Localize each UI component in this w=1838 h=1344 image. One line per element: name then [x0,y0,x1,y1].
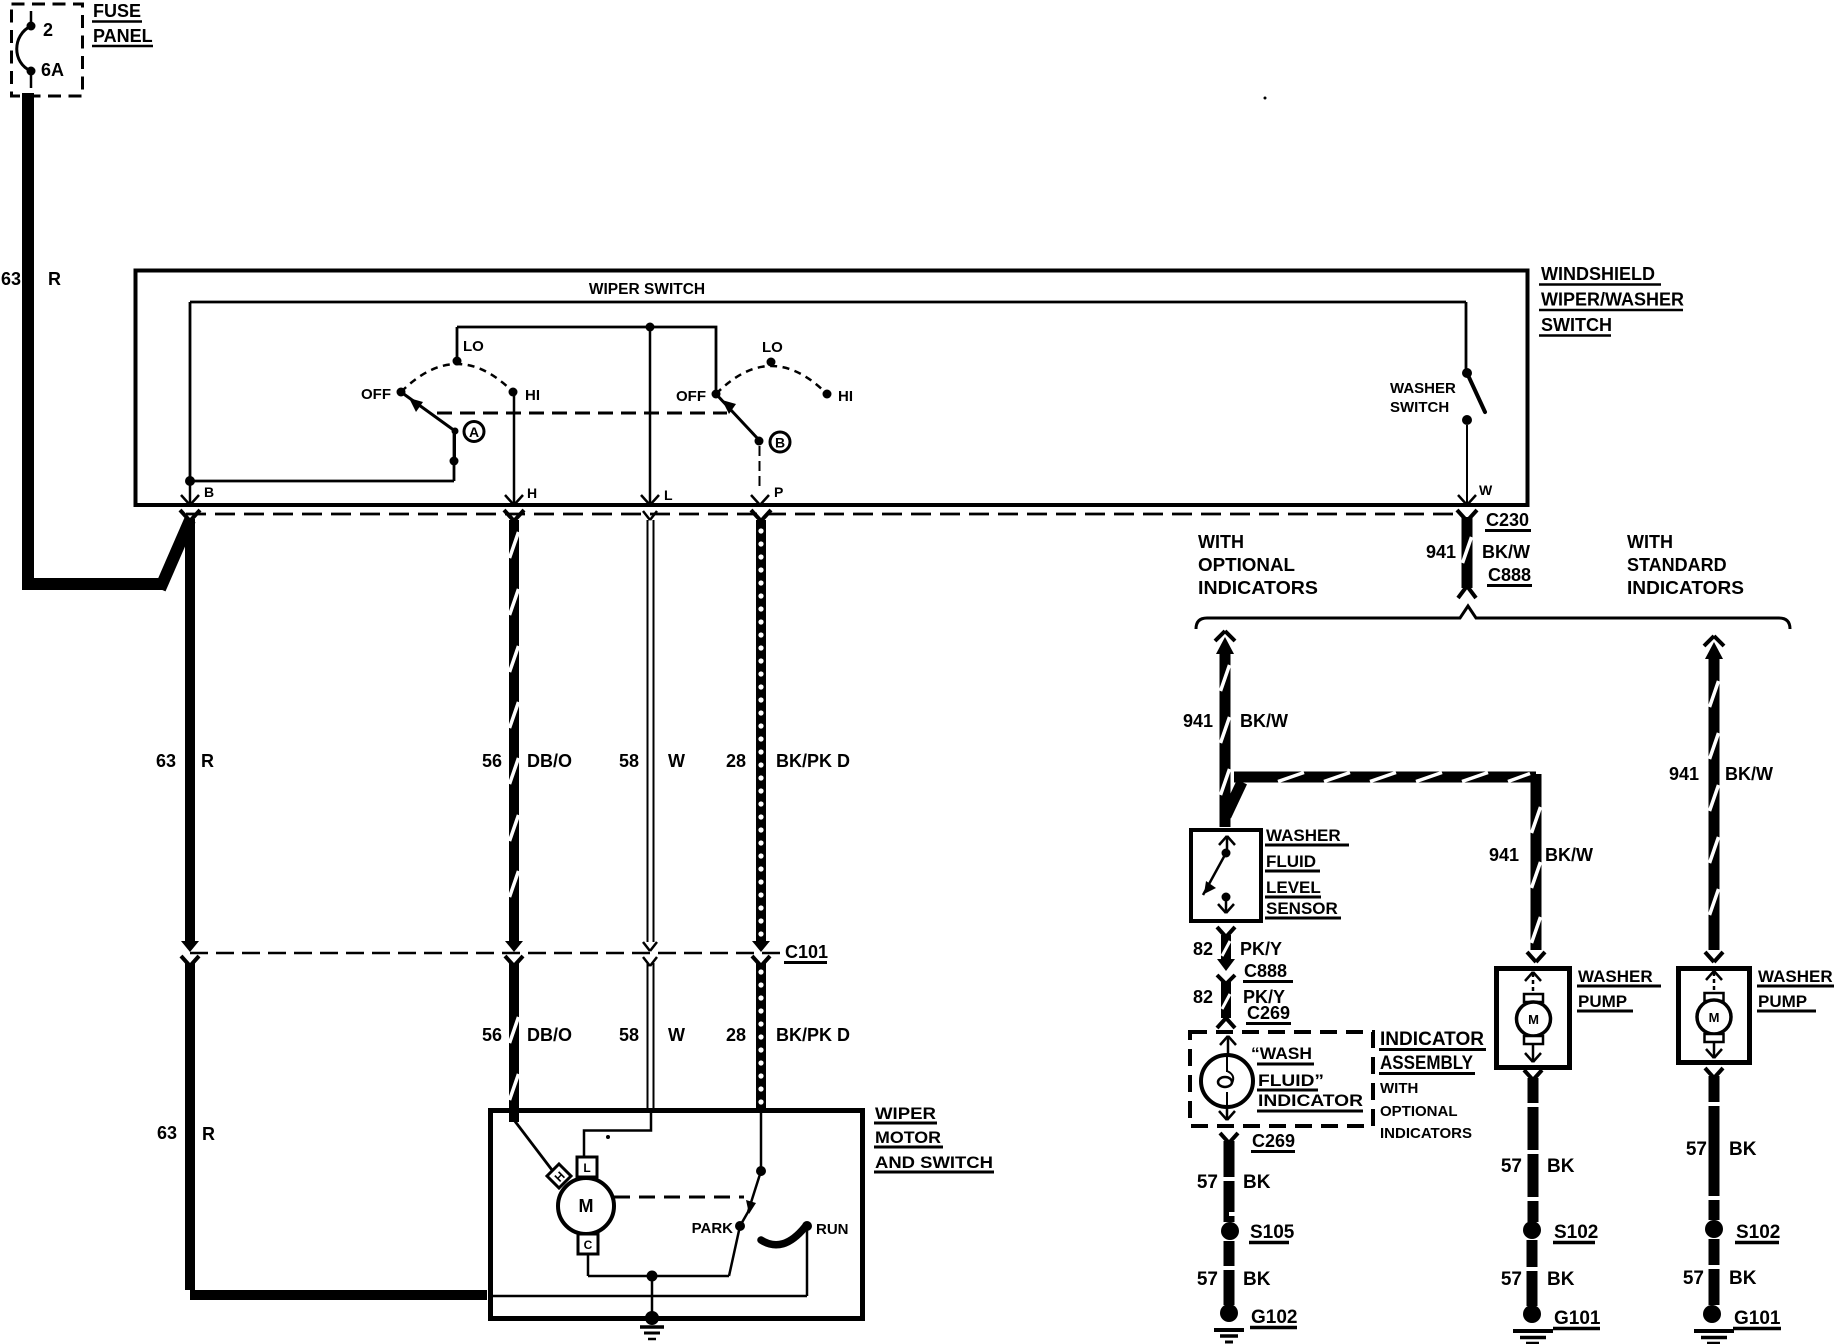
wire LO-A up to link bus [456,327,459,361]
mechanical link dashed line A-B [437,412,727,415]
washer fluid level sensor box [1191,830,1261,921]
svg-text:63: 63 [157,1123,177,1143]
svg-text:OFF: OFF [676,388,706,405]
terminal H arrow [505,495,523,505]
wire HI-A down to H terminal [513,392,516,503]
windshield wiper/washer switch outline box [136,271,1528,506]
svg-text:BK: BK [1547,1269,1575,1290]
svg-text:2: 2 [43,20,53,40]
svg-text:C101: C101 [785,942,828,962]
wash fluid indicator label [1251,1044,1363,1111]
stray speck [606,1135,610,1139]
park switch upper contact [756,1166,766,1176]
with standard indicators label [1627,532,1744,598]
splice S102 label (pump 1) [1553,1222,1598,1243]
svg-text:C269: C269 [1247,1003,1290,1023]
switch B OFF contact [712,390,721,399]
switch A OFF contact [397,388,406,397]
svg-text:S102: S102 [1554,1222,1598,1243]
svg-text:BK/W: BK/W [1725,764,1773,784]
svg-text:INDICATORS: INDICATORS [1380,1125,1472,1142]
wire 941 BK/W standard-indicators branch (right) [1704,636,1724,962]
switch B LO contact [767,358,776,367]
svg-text:LEVEL: LEVEL [1266,878,1321,897]
switch A blade [401,392,459,435]
svg-text:W: W [668,1025,685,1045]
wire 941 branch to washer pump 1 [1226,773,1545,963]
svg-text:FUSE: FUSE [93,1,141,21]
svg-text:INDICATOR: INDICATOR [1258,1091,1363,1110]
wire 58 W vertical run (L to C101) [648,520,654,942]
svg-text:B: B [204,484,214,500]
washer switch label [1390,380,1456,416]
fuse panel box [12,4,83,96]
svg-text:941: 941 [1426,542,1456,562]
wire 57 BK pump 1 ground run [1524,1070,1542,1222]
indicator bulb ground arrow [1219,1106,1235,1120]
svg-text:WIPER/WASHER: WIPER/WASHER [1541,290,1684,310]
svg-text:PUMP: PUMP [1578,992,1627,1011]
svg-text:6A: 6A [41,60,64,80]
svg-text:INDICATOR: INDICATOR [1380,1029,1484,1050]
wire 58 W lower run [648,963,654,1110]
svg-text:28: 28 [726,751,746,771]
svg-text:PARK: PARK [692,1220,734,1237]
svg-text:B: B [775,435,785,451]
brush terminal H (diamond) [547,1164,571,1188]
C101 pins on wire 63 [181,941,199,966]
svg-text:WIPER: WIPER [875,1104,936,1123]
switch A LO contact [453,357,462,366]
svg-text:82: 82 [1193,987,1213,1007]
svg-text:OPTIONAL: OPTIONAL [1380,1103,1458,1120]
svg-text:INDICATORS: INDICATORS [1198,578,1318,598]
washer pump 2 feed arrow [1706,971,1722,993]
stray speck [22,248,26,252]
washer pump 1 feed arrow [1525,972,1541,994]
switch B HI contact [823,390,832,399]
terminal B arrow [181,481,199,505]
wire 57 BK to G102 [1222,1241,1236,1305]
svg-text:BK: BK [1243,1172,1271,1193]
switch A pivot link [454,431,456,461]
ground G101 stud (pump 1) [1523,1305,1541,1323]
washer fluid level sensor label [1265,826,1349,918]
wire C to ground junction [588,1254,729,1276]
wire RUN to battery feed [490,1226,807,1296]
svg-text:R: R [202,1124,215,1144]
wire 82 PK/Y lower [1217,975,1235,1028]
connector C888 label (top) [1487,565,1532,586]
PARK contact [735,1221,745,1231]
node: ground junction [647,1271,658,1282]
indicator assembly label [1379,1029,1486,1142]
sensor upper contact [1222,849,1231,858]
C101 pins on wire 58 [643,942,657,966]
brush terminal C (square) [578,1234,598,1254]
wire 28 BK/PK D vertical run (P to C101) [758,520,763,941]
svg-text:941: 941 [1489,845,1519,865]
svg-text:RUN: RUN [816,1221,849,1238]
svg-text:C230: C230 [1486,510,1529,530]
svg-text:C: C [584,1238,593,1252]
node: ground stud on box edge [645,1311,659,1325]
svg-text:BK: BK [1729,1139,1757,1160]
svg-text:R: R [48,269,61,289]
svg-text:HI: HI [525,387,540,404]
splice S102 (pump 1) [1523,1221,1541,1239]
brush terminal L (square) [577,1157,597,1177]
connector C101 dashed line [190,952,783,955]
svg-text:57: 57 [1686,1139,1707,1160]
svg-text:BK: BK [1243,1269,1271,1290]
splice S105 [1221,1222,1239,1240]
circled B label [770,432,790,452]
svg-text:BK/PK D: BK/PK D [776,751,850,771]
C101 pins on wire 28 [752,941,770,966]
svg-text:WITH: WITH [1627,532,1673,552]
wire 56 DB/O vertical run (H to C101) [510,520,519,941]
svg-text:28: 28 [726,1025,746,1045]
ground G101 label (pump 2) [1733,1308,1781,1329]
svg-text:OFF: OFF [361,386,391,403]
splice S105 label [1249,1222,1295,1243]
splice S102 (pump 2) [1705,1220,1723,1238]
svg-text:WASHER: WASHER [1390,380,1456,397]
washer switch upper contact [1462,368,1472,378]
wire 57 BK pump 2 ground run [1705,1068,1723,1220]
svg-text:L: L [583,1161,590,1175]
svg-text:PK/Y: PK/Y [1240,939,1282,959]
svg-text:WASHER: WASHER [1578,967,1653,986]
C101 pins on wire 56 [505,941,523,966]
svg-text:WITH: WITH [1380,1080,1418,1097]
splice S102 label (pump 2) [1735,1222,1780,1243]
connector C230 label [1485,510,1531,531]
ground G102 label [1250,1307,1297,1328]
svg-text:ASSEMBLY: ASSEMBLY [1380,1053,1473,1074]
sensor lower contact [1222,893,1231,902]
svg-text:LO: LO [463,338,484,355]
svg-text:MOTOR: MOTOR [875,1128,941,1147]
wiper motor M [558,1178,614,1234]
wire 63 R lower run to motor box [190,963,487,1295]
washer switch lead to W terminal [1466,425,1468,503]
svg-text:W: W [1479,482,1493,498]
washer pump 2 motor M [1697,993,1731,1042]
svg-text:INDICATORS: INDICATORS [1627,578,1744,598]
svg-text:PANEL: PANEL [93,26,153,46]
svg-text:57: 57 [1501,1269,1522,1290]
svg-text:S105: S105 [1250,1222,1295,1243]
stray speck [1264,97,1267,100]
wire junction to ground [651,1276,654,1318]
wiper motor and switch box [491,1111,863,1319]
svg-text:57: 57 [1683,1268,1704,1289]
svg-text:OPTIONAL: OPTIONAL [1198,555,1295,575]
washer switch blade [1467,373,1485,412]
svg-text:STANDARD: STANDARD [1627,555,1727,575]
svg-text:BK/W: BK/W [1545,845,1593,865]
connector C888 label (lower) [1243,961,1293,982]
indicator assembly dashed box [1190,1032,1373,1126]
circled A label [464,422,484,442]
ground G101 stud (pump 2) [1703,1305,1721,1323]
washer pump 2 label [1757,967,1834,1011]
wire 28 to park switch [760,1112,763,1171]
park switch blade [729,1171,761,1276]
connector C269 label (upper) [1246,1003,1291,1024]
node: junction at B leg [185,476,195,486]
brace spanning indicator options [1196,606,1790,629]
svg-text:BK/PK D: BK/PK D [776,1025,850,1045]
svg-text:WINDSHIELD: WINDSHIELD [1541,264,1655,284]
terminal P arrow [751,495,769,505]
node: L tap junction [646,323,655,332]
wire 63 R vertical run (B to C101) [185,519,195,941]
svg-text:“WASH: “WASH [1251,1044,1312,1063]
svg-text:C269: C269 [1252,1131,1295,1151]
terminal W arrow [1458,495,1476,505]
svg-text:HI: HI [838,388,853,405]
connector C101 label [784,942,828,963]
wire 941 BK/W optional-indicators branch (left) [1215,631,1235,827]
switch B pivot lead to P (dashed) [759,446,761,490]
sensor internal top arrow [1219,836,1235,849]
wiper motor and switch label [874,1104,994,1172]
ground G101 label (pump 1) [1553,1308,1601,1329]
svg-text:56: 56 [482,1025,502,1045]
connector C230 dashed interface line [186,513,1457,516]
ground G102 stud [1220,1304,1238,1322]
wire 82 PK/Y upper [1217,927,1235,971]
windshield wiper/washer switch label [1539,264,1684,336]
washer switch lower contact [1462,415,1472,425]
wash fluid indicator bulb [1201,1055,1253,1107]
washer pump 2 box [1679,969,1750,1063]
svg-text:A: A [469,424,479,440]
svg-text:FLUID: FLUID [1266,852,1316,871]
wire 28 BK/PK D lower run [758,963,763,1110]
svg-text:SWITCH: SWITCH [1390,399,1449,416]
svg-text:63: 63 [1,269,21,289]
park-run thick travel arc [761,1227,805,1245]
svg-text:G102: G102 [1251,1307,1297,1328]
svg-text:C888: C888 [1244,961,1287,981]
wiper switch inner frame wires [190,302,1466,481]
svg-text:57: 57 [1197,1269,1218,1290]
indicator bulb feed arrow [1220,1036,1236,1056]
ground G101 symbol (pump 1) [1513,1331,1553,1343]
svg-text:SENSOR: SENSOR [1266,899,1338,918]
link bus wire between switch A LO and switch B OFF [457,327,716,394]
svg-text:63: 63 [156,751,176,771]
svg-text:H: H [527,485,537,501]
svg-text:58: 58 [619,1025,639,1045]
svg-text:941: 941 [1669,764,1699,784]
wire 941 BK/W from W terminal through C230/C888 [1458,517,1476,598]
svg-text:DB/O: DB/O [527,1025,572,1045]
svg-text:BK/W: BK/W [1482,542,1530,562]
wire 56 to brush H [514,1120,552,1170]
switch A HI contact [509,388,518,397]
switch B blade [716,394,764,446]
svg-text:G101: G101 [1734,1308,1781,1329]
svg-text:FLUID”: FLUID” [1258,1071,1324,1090]
svg-text:SWITCH: SWITCH [1541,315,1612,335]
svg-text:S102: S102 [1736,1222,1780,1243]
svg-text:WITH: WITH [1198,532,1244,552]
washer pump 2 ground arrow [1706,1042,1722,1058]
svg-text:WIPER SWITCH: WIPER SWITCH [589,281,705,298]
svg-text:941: 941 [1183,711,1213,731]
fuse panel label [92,1,153,46]
connector sockets at B H L P W [180,510,1477,521]
svg-text:BK: BK [1547,1156,1575,1177]
svg-text:DB/O: DB/O [527,751,572,771]
fuse F (2, 6A) [17,11,36,88]
sensor internal bottom arrow [1218,897,1234,913]
node: switch A pivot lower contact [450,457,459,466]
motor-park switch dashed mechanical link [614,1196,744,1199]
svg-text:58: 58 [619,751,639,771]
wire L tap down to L terminal [649,327,652,503]
svg-text:M: M [1709,1010,1720,1025]
svg-text:WASHER: WASHER [1758,967,1833,986]
svg-text:PUMP: PUMP [1758,992,1807,1011]
sensor float switch blade [1203,853,1226,895]
svg-text:W: W [668,751,685,771]
wire 58 to brush L [584,1112,651,1156]
connector C269 label (lower) [1251,1131,1295,1152]
wire 57 BK indicator ground run [1220,1133,1238,1222]
ground G102 symbol [1214,1330,1244,1342]
switch B dashed travel arc [716,366,827,394]
svg-text:M: M [579,1196,594,1216]
svg-text:C888: C888 [1488,565,1531,585]
ground G101 symbol (pump 2) [1694,1331,1734,1343]
svg-text:LO: LO [762,339,783,356]
svg-text:57: 57 [1197,1172,1218,1193]
terminal L arrow [641,495,659,505]
ground G100 symbol [640,1327,664,1339]
svg-text:P: P [774,484,783,500]
washer pump 1 motor M [1517,994,1551,1044]
wire 57 BK to G101 (pump 1) [1525,1240,1539,1306]
svg-text:L: L [664,487,673,503]
wire 63 R from fuse panel to wiper switch terminal B [22,93,190,589]
switch A dashed travel arc [401,364,513,392]
svg-text:BK: BK [1729,1268,1757,1289]
RUN contact [802,1221,812,1231]
washer switch feed wire [1465,302,1468,371]
with optional indicators label [1198,532,1318,598]
svg-text:56: 56 [482,751,502,771]
washer pump 1 label [1577,967,1661,1011]
svg-text:AND SWITCH: AND SWITCH [875,1153,993,1172]
wire 56 DB/O lower run [510,963,519,1122]
svg-text:R: R [201,751,214,771]
svg-text:BK/W: BK/W [1240,711,1288,731]
svg-text:82: 82 [1193,939,1213,959]
svg-text:57: 57 [1501,1156,1522,1177]
svg-text:M: M [1528,1012,1539,1027]
washer pump 1 box [1497,969,1570,1068]
svg-text:G101: G101 [1554,1308,1601,1329]
washer pump 1 ground arrow [1525,1044,1541,1062]
wire 57 BK to G101 (pump 2) [1707,1239,1721,1305]
wire from switch A pivot to B leg [190,431,454,481]
svg-text:WASHER: WASHER [1266,826,1341,845]
